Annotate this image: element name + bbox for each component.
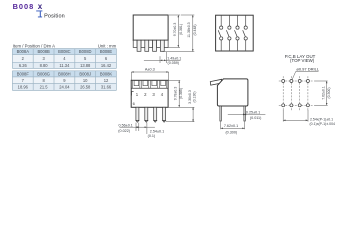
switch S3 [235,15,240,51]
svg-text:24.04: 24.04 [59,85,70,90]
svg-text:(0.1): (0.1) [148,134,156,138]
svg-text:1.49±0.1: 1.49±0.1 [167,56,181,60]
svg-text:(0.385): (0.385) [179,88,183,99]
svg-text:13.88: 13.88 [80,63,91,68]
svg-text:B008K: B008K [100,71,113,76]
switch S4 [243,15,248,51]
svg-text:B008A: B008A [17,49,30,54]
svg-text:(0.1)x(P-1)±.004: (0.1)x(P-1)±.004 [310,122,336,126]
svg-text:B008G: B008G [37,71,50,76]
back view body [133,15,168,40]
label Position [44,13,65,19]
front view position numbers 1 2 3 4 [136,92,164,97]
pcb holes grid [279,76,313,110]
front view dim 9.78 [169,80,195,107]
svg-text:ø0.97 DRILL: ø0.97 DRILL [296,66,319,71]
svg-text:(0.022): (0.022) [118,129,130,133]
svg-text:26.58: 26.58 [80,85,91,90]
svg-text:9.78±0.3: 9.78±0.3 [174,87,178,101]
back view dim 11.38 [163,15,198,52]
table caption Item / Position / Dim A [13,43,55,48]
svg-text:10: 10 [83,78,88,83]
front view dim 0.56 pin width [118,123,155,133]
svg-text:(0.300): (0.300) [327,87,331,98]
back view pins [137,40,164,51]
front view ON corner mark [132,92,134,96]
position callout leader [36,11,42,18]
svg-text:11.34: 11.34 [59,63,70,68]
front view pins [136,107,166,122]
svg-text:31.66: 31.66 [101,85,112,90]
table caption Unit : mm [98,43,117,48]
svg-text:B008J: B008J [79,71,91,76]
pcb layout title [285,54,316,63]
svg-text:B008H: B008H [58,71,71,76]
front view dim 3.30 [166,90,197,122]
side view pins [220,106,245,121]
svg-text:(0.011): (0.011) [250,116,261,120]
svg-text:(0.300): (0.300) [225,131,237,135]
side view body [217,79,248,106]
back view dim 9.70 [167,15,184,47]
back view dim 1.49 [144,52,181,65]
svg-text:12: 12 [104,78,109,83]
back view standoff tabs [133,40,168,47]
svg-text:0.25±0.1: 0.25±0.1 [246,110,260,114]
svg-text:16.42: 16.42 [101,63,112,68]
svg-text:0.56±0.1: 0.56±0.1 [119,123,133,127]
svg-text:3.30±0.3: 3.30±0.3 [188,90,192,104]
front view mark 6 [133,101,136,106]
table 2 (B008F-B008K) [12,71,116,91]
front view switch sliders [134,81,165,86]
svg-text:9.70±0.3: 9.70±0.3 [173,23,177,37]
svg-text:B008: B008 [13,2,35,11]
pcb dim 7.62 row spacing [314,81,331,105]
svg-text:18.96: 18.96 [18,85,29,90]
svg-text:(TOP VIEW): (TOP VIEW) [290,58,315,63]
svg-text:(0.381): (0.381) [179,24,183,35]
svg-text:Item / Position / Dim A: Item / Position / Dim A [13,43,55,48]
svg-text:x: x [38,2,43,11]
front view slot band [131,80,168,88]
front view dim A [131,67,168,80]
svg-text:6.26: 6.26 [19,63,28,68]
svg-text:(0.130): (0.130) [193,91,197,102]
table 1 (B008A-B008E) [12,49,116,69]
svg-text:B008B: B008B [37,49,50,54]
svg-text:Position: Position [44,13,65,19]
front view body [131,80,168,107]
svg-text:B008E: B008E [100,49,113,54]
pcb dim 2.54 x (P-1) [283,110,335,126]
svg-text:8.80: 8.80 [40,63,49,68]
svg-text:(0.448): (0.448) [193,24,197,35]
svg-text:B008C: B008C [58,49,71,54]
title B008 x [13,2,43,11]
svg-text:2.54±0.1: 2.54±0.1 [150,129,164,133]
svg-text:7.62±0.1: 7.62±0.1 [224,124,238,128]
svg-text:(0.059): (0.059) [168,61,179,65]
pcb drill label [292,66,320,79]
side view dim 7.62 [221,121,245,134]
switch S2 [226,15,231,51]
switch S1 [218,15,223,51]
svg-text:7.62±0.1: 7.62±0.1 [322,86,326,100]
svg-text:B008F: B008F [17,71,30,76]
side view dim 0.25 pin thickness [228,110,266,120]
svg-text:21.5: 21.5 [40,85,49,90]
svg-text:A±0.3: A±0.3 [145,67,155,71]
svg-text:B008D: B008D [79,49,92,54]
side view actuator tab [210,79,221,85]
front view dim 2.54 pitch [145,123,165,138]
svg-text:11.38±0.3: 11.38±0.3 [187,22,191,37]
schematic box [216,15,254,51]
svg-text:Unit : mm: Unit : mm [98,43,117,48]
